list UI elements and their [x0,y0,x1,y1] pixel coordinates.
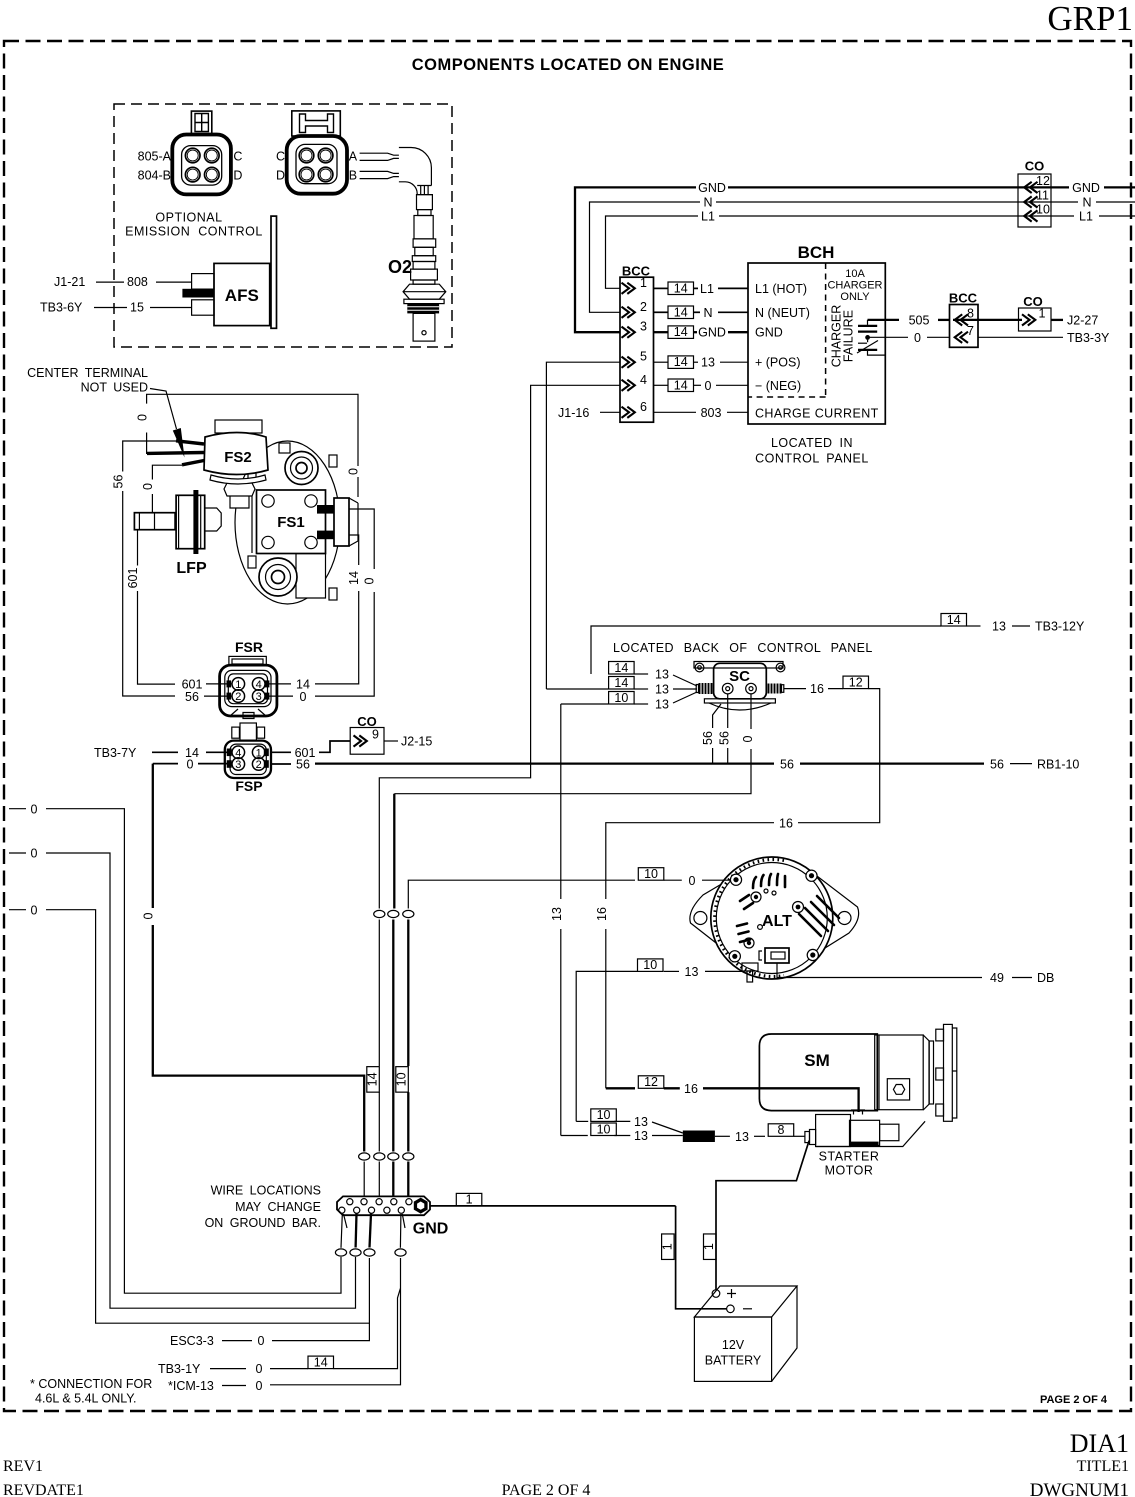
svg-text:STARTER: STARTER [819,1150,880,1164]
svg-text:10: 10 [597,1108,611,1122]
wire 56 from FS2 coil to FSR pin 2 [123,441,176,472]
svg-text:CHARGER: CHARGER [827,280,882,292]
svg-text:10: 10 [395,1072,409,1086]
svg-text:0: 0 [187,758,194,772]
wire N top run [590,202,701,312]
svg-text:DB: DB [1037,971,1054,985]
svg-text:56: 56 [185,690,199,704]
svg-text:CONTROL PANEL: CONTROL PANEL [755,452,869,466]
svg-text:0: 0 [705,379,712,393]
SC coil screw A [722,683,733,694]
wire 13 row A (from ALT) [576,1120,588,1122]
svg-text:2: 2 [640,300,647,314]
BCC pin 1 [622,283,635,294]
wire 13 row2 into SC [546,688,608,690]
svg-text:0: 0 [256,1379,263,1393]
svg-text:14: 14 [674,305,688,319]
svg-text:RB1-10: RB1-10 [1037,757,1079,771]
wire GND to BCH [654,331,669,333]
svg-text:L1: L1 [700,282,714,296]
svg-text:REV1: REV1 [3,1458,43,1475]
BCC pin 3 [622,327,635,338]
svg-text:0: 0 [256,1362,263,1376]
wire N to BCH [654,311,669,313]
svg-text:0: 0 [31,903,38,917]
wire BCC5 to SC coil (13) [546,362,620,689]
svg-text:56: 56 [296,758,310,772]
svg-text:EMISSION CONTROL: EMISSION CONTROL [125,225,263,239]
svg-text:J2-27: J2-27 [1067,314,1098,328]
svg-text:56: 56 [111,475,125,489]
svg-text:FSP: FSP [235,778,262,794]
svg-text:REVDATE1: REVDATE1 [3,1482,84,1497]
svg-text:TB3-12Y: TB3-12Y [1035,620,1085,634]
ALT body [711,857,833,979]
svg-text:10: 10 [644,867,658,881]
svg-text:12V: 12V [722,1338,745,1352]
CO pin 10 [1024,210,1037,221]
svg-text:8: 8 [777,1123,784,1137]
FSP pin 4 [232,746,245,759]
wire 601 FSP1 to CO9 [271,751,291,753]
wire 13 row3 into SC [609,692,635,705]
svg-text:0: 0 [141,483,155,490]
svg-text:LOCATED BACK OF CONTROL PANEL: LOCATED BACK OF CONTROL PANEL [613,641,873,655]
BCC pin 4 [622,380,635,391]
svg-text:808: 808 [127,275,148,289]
svg-text:13: 13 [655,683,669,697]
svg-text:16: 16 [684,1082,698,1096]
svg-text:OPTIONAL: OPTIONAL [155,211,222,225]
svg-text:BCH: BCH [798,243,835,262]
svg-text:FS1: FS1 [277,514,305,531]
svg-text:FS2: FS2 [224,449,252,466]
wire ground bar to battery - [430,1205,676,1207]
svg-text:ALT: ALT [762,913,792,930]
svg-text:FAILURE: FAILURE [842,310,856,362]
FSR pin 1 [232,678,245,691]
wire 1 boxes (battery cables) [662,1234,675,1260]
BCC pin 2 [622,307,635,318]
svg-text:N: N [703,196,712,210]
svg-text:1: 1 [1039,307,1046,321]
svg-text:0: 0 [142,912,156,919]
svg-text:N: N [703,306,712,320]
wires out of bar bottom [341,1214,347,1248]
connector FSP [225,723,271,778]
wire 0 to ALT [408,880,635,908]
svg-text:14: 14 [674,325,688,339]
svg-text:10: 10 [1036,203,1050,217]
svg-text:SM: SM [804,1051,830,1070]
svg-text:10: 10 [597,1122,611,1136]
svg-text:1: 1 [640,276,647,290]
svg-text:14: 14 [614,661,628,675]
svg-text:803: 803 [701,406,722,420]
svg-text:13: 13 [992,620,1006,634]
svg-text:6: 6 [640,400,647,414]
GND ground bar [337,1196,430,1215]
connector EC1 (805-A / 804-B) [172,111,231,194]
harness break circles row 3 [335,1249,346,1256]
battery - terminal [727,1305,735,1313]
wire frame over FS assembly (0 net: FS2 centre terminal / FS1) [147,394,358,466]
svg-text:D: D [276,169,285,183]
svg-text:2: 2 [235,691,241,703]
svg-text:SC: SC [729,668,750,685]
svg-text:16: 16 [810,682,824,696]
svg-text:AFS: AFS [225,286,259,305]
wire 14 boxes on BCC pins [668,282,694,295]
svg-text:56: 56 [718,731,732,745]
charger failure contact symbol [857,320,885,355]
wire 13 TB3-12Y run [591,626,941,674]
svg-text:13: 13 [701,356,715,370]
svg-text:BCC: BCC [949,291,978,306]
SC right stud terminal [768,684,784,694]
svg-text:DWGNUM1: DWGNUM1 [1030,1480,1129,1497]
svg-text:12: 12 [1036,174,1050,188]
wire L1 to BCH [654,287,669,289]
left edge 0 stub row 2 [9,852,26,854]
svg-text:TB3-1Y: TB3-1Y [158,1362,201,1376]
svg-text:MOTOR: MOTOR [825,1164,874,1178]
solenoid battery terminal [805,1132,810,1143]
O2 sensor elbow and body [399,148,446,304]
svg-text:9: 9 [372,728,379,742]
svg-text:GND: GND [755,326,783,340]
svg-text:*ICM-13: *ICM-13 [168,1379,214,1393]
svg-text:O2: O2 [388,257,412,277]
FS1 right connector [334,498,349,546]
svg-text:A: A [349,150,358,164]
starter solenoid [816,1115,926,1147]
svg-text:0: 0 [31,802,38,816]
svg-text:14: 14 [674,281,688,295]
splice (13 junction) [683,1131,715,1143]
svg-text:14: 14 [347,571,361,585]
svg-text:GND: GND [1072,181,1100,195]
svg-text:4.6L & 5.4L ONLY.: 4.6L & 5.4L ONLY. [35,1392,136,1406]
svg-text:805-A: 805-A [138,150,172,164]
svg-text:LFP: LFP [176,560,207,577]
svg-text:L1: L1 [701,210,715,224]
FSR pin 4 [252,678,265,691]
wire 0 (FS1 to FSR pin 3) [349,509,374,569]
svg-text:1: 1 [702,1243,716,1250]
wire 13 to BCH + (POS) [654,361,669,363]
wire 56 SC flange drop [713,704,721,728]
svg-text:2: 2 [256,759,262,771]
svg-text:14: 14 [614,676,628,690]
svg-text:* CONNECTION FOR: * CONNECTION FOR [30,1377,152,1391]
svg-text:13: 13 [550,907,564,921]
FS1 valve body [235,441,358,604]
svg-text:CENTER TERMINAL: CENTER TERMINAL [27,366,148,380]
svg-text:13: 13 [655,698,669,712]
svg-text:0: 0 [300,690,307,704]
svg-text:3: 3 [640,320,647,334]
svg-text:49: 49 [990,971,1004,985]
svg-text:TITLE1: TITLE1 [1077,1458,1129,1475]
ground wire 10 vertical [407,920,409,1067]
svg-text:GND: GND [413,1221,449,1238]
svg-text:3: 3 [235,759,241,771]
battery + terminal [712,1290,720,1298]
svg-text:GND: GND [698,181,726,195]
svg-text:13: 13 [634,1115,648,1129]
FSP pin 2 [252,758,265,771]
svg-text:16: 16 [779,816,793,830]
svg-text:5: 5 [640,350,647,364]
svg-text:C: C [233,150,242,164]
CO pin 11 [1024,196,1037,207]
wire 13 splice to solenoid [715,1135,730,1137]
svg-text:DIA1: DIA1 [1070,1429,1129,1458]
svg-text:ESC3-3: ESC3-3 [170,1334,214,1348]
svg-text:FSR: FSR [235,639,263,655]
SM drive housing [875,1035,924,1110]
svg-text:BATTERY: BATTERY [705,1354,762,1368]
solenoid S terminal (16) [851,1110,865,1115]
svg-text:COMPONENTS LOCATED ON ENGINE: COMPONENTS LOCATED ON ENGINE [412,56,725,74]
FSR pin 2 [232,690,245,703]
FS2 fuel solenoid coil [147,441,204,465]
AFS sensor [192,216,277,328]
svg-text:14: 14 [674,355,688,369]
svg-text:10: 10 [643,958,657,972]
svg-text:3: 3 [256,691,262,703]
svg-text:TB3-7Y: TB3-7Y [94,746,137,760]
svg-text:+ (POS): + (POS) [755,356,801,370]
svg-text:1: 1 [660,1243,674,1250]
SM mounting flange [923,1024,957,1121]
svg-text:14: 14 [366,1072,380,1086]
ALT output connector [765,948,789,963]
svg-text:10: 10 [614,691,628,705]
svg-text:D: D [233,169,242,183]
wire battery + to starter solenoid [716,1141,809,1290]
wire 56 SC screw A drop [727,694,729,728]
svg-text:GRP1: GRP1 [1047,0,1133,38]
wire 13 vertical (SC row3 to splice) [561,703,608,705]
harness break circles row 2 [359,1153,370,1160]
svg-text:L1 (HOT): L1 (HOT) [755,282,807,296]
CO pin 12 [1024,182,1037,193]
svg-text:0: 0 [31,847,38,861]
FSP 0 wire to ground bar [153,763,178,765]
FSP pin 1 [252,746,265,759]
svg-text:L1: L1 [1079,210,1093,224]
svg-text:NOT USED: NOT USED [81,381,148,395]
svg-text:N: N [1082,196,1091,210]
svg-text:15: 15 [130,301,144,315]
svg-text:14: 14 [314,1355,328,1369]
svg-text:J2-15: J2-15 [401,735,432,749]
wire 505 [868,319,900,321]
svg-text:TB3-3Y: TB3-3Y [1067,331,1110,345]
wire 0 into FSR3 [265,695,293,697]
SM body [759,1034,877,1111]
wire battery - to ground bar [676,1206,727,1309]
harness break circles row 1 [374,910,385,917]
svg-text:56: 56 [990,757,1004,771]
ALT vents and details [737,874,839,942]
wire 56 FSP2 rightward (main 56 run) [271,763,291,765]
wires row2 circles into bar [364,1162,379,1197]
svg-text:0: 0 [914,331,921,345]
svg-text:804-B: 804-B [138,169,171,183]
svg-text:10A: 10A [845,268,865,280]
wire L1 top run [606,216,699,288]
svg-text:TB3-6Y: TB3-6Y [40,301,83,315]
svg-text:14: 14 [674,378,688,392]
BCC pin 5 [622,357,635,368]
wire 0 to BCH - (NEG) [654,384,669,386]
SC solenoid contactor [694,662,785,711]
connector EC2 (C/D - A/B to O2) [287,111,347,194]
ground wire (thick) vertical [392,920,394,1152]
svg-text:J1-16: J1-16 [558,406,589,420]
svg-text:N (NEUT): N (NEUT) [755,306,810,320]
SC coil screw B [746,683,757,694]
svg-text:MAY CHANGE: MAY CHANGE [235,1200,321,1214]
wire 14 into FSR4 [265,683,291,685]
svg-text:56: 56 [780,757,794,771]
svg-text:13: 13 [735,1130,749,1144]
wire 0 SC screw B to ground [750,694,752,729]
svg-text:0: 0 [741,735,755,742]
svg-text:GND: GND [698,326,726,340]
svg-text:CHARGE CURRENT: CHARGE CURRENT [755,406,879,420]
ALT mounting plate [690,873,859,958]
svg-text:− (NEG): − (NEG) [755,379,801,393]
svg-text:4: 4 [640,373,647,387]
left edge 0 stub row 3 [9,909,26,911]
svg-text:13: 13 [655,668,669,682]
wire 13 row B (from SC) [561,1135,588,1137]
svg-text:601: 601 [126,568,140,589]
BCH dashed charger-only compartment [748,263,826,397]
LFP fuel pickup [134,490,221,554]
wire 16 SC to SM run [784,688,806,690]
svg-text:ON GROUND BAR.: ON GROUND BAR. [205,1216,321,1230]
left edge 0 stub row 1 [9,808,26,810]
svg-text:0: 0 [258,1334,265,1348]
optional emission control dashed enclosure [114,104,452,347]
svg-text:ONLY: ONLY [840,291,870,303]
wire 13 row1 into SC [609,662,635,675]
svg-text:7: 7 [967,324,974,338]
svg-text:12: 12 [849,675,863,689]
svg-text:B: B [349,169,357,183]
svg-text:13: 13 [634,1129,648,1143]
svg-text:12: 12 [644,1075,658,1089]
svg-text:8: 8 [967,307,974,321]
wire 13 from ALT [705,970,742,972]
BCC pin 8 [955,314,968,325]
svg-text:16: 16 [595,907,609,921]
svg-text:0: 0 [135,414,149,421]
svg-text:CO: CO [1025,159,1045,174]
svg-text:14: 14 [947,613,961,627]
BCC pin 6 [622,407,635,418]
ground bar stud (hex) [414,1198,428,1214]
ground wire 14 vertical [378,920,380,1067]
BCH box [748,263,885,424]
svg-text:0: 0 [689,874,696,888]
svg-text:505: 505 [909,314,930,328]
wire 49 to DB [777,963,982,978]
wire 0 from FS2 coil to LFP pickup [152,465,182,479]
svg-text:0: 0 [363,577,377,584]
svg-text:11: 11 [1036,189,1049,203]
FSR pin 3 [252,690,265,703]
wire 14 (FS1 to FSR pin 4) [349,535,359,565]
ALT bolts [730,874,741,885]
battery 12V [694,1286,797,1381]
wire BCC4 to ground (0) [379,385,620,908]
svg-text:J1-21: J1-21 [54,275,85,289]
svg-text:56: 56 [701,731,715,745]
SC left stud terminal [696,683,712,694]
wire 16 to solenoid [606,1087,635,1089]
BCC pin 7 [955,332,968,343]
svg-text:PAGE 2 OF 4: PAGE 2 OF 4 [502,1482,591,1497]
ALT ground stud [742,963,758,971]
svg-text:C: C [276,150,285,164]
wire 0 (charger failure) [869,336,909,338]
FSP pin 3 [232,758,245,771]
O2 sensor lead wires [360,153,399,160]
svg-text:0: 0 [347,468,361,475]
wire GND (thick) top run [575,187,696,332]
svg-text:PAGE 2 OF 4: PAGE 2 OF 4 [1040,1394,1108,1406]
svg-text:13: 13 [685,965,699,979]
svg-text:WIRE LOCATIONS: WIRE LOCATIONS [211,1184,321,1198]
svg-text:1: 1 [466,1193,473,1207]
wire 601 from LFP to FSR pin 1 [137,530,139,566]
svg-text:LOCATED IN: LOCATED IN [771,436,853,450]
